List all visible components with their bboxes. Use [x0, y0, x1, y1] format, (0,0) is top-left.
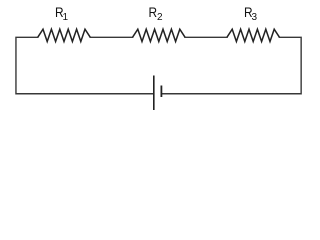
wire: right loop (battery to right vertical to R3)	[161, 37, 301, 93]
resistor R3	[227, 29, 279, 41]
svg-text:3: 3	[252, 12, 258, 23]
resistor R1	[38, 29, 90, 41]
wire: left loop (top rail to R1, left vertical, bottom rail to battery)	[16, 37, 154, 93]
wire between R2 and R3	[185, 36, 227, 38]
svg-text:2: 2	[157, 12, 163, 23]
resistor R2	[133, 29, 185, 41]
wire between R1 and R2	[90, 36, 132, 38]
battery long plate (positive)	[153, 76, 155, 111]
svg-text:R: R	[149, 4, 158, 20]
battery short plate (negative)	[160, 86, 162, 98]
svg-text:1: 1	[63, 12, 69, 23]
